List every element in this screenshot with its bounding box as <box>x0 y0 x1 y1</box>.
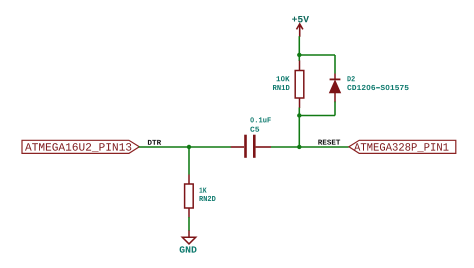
wire RESET net: capacitor to label <box>271 146 349 148</box>
resistor RN1D <box>295 61 304 109</box>
diode D2 <box>329 74 340 103</box>
ground <box>182 231 195 244</box>
wire top rail node B to diode column <box>299 54 335 56</box>
wire DTR net: label to capacitor <box>139 146 231 148</box>
capacitor C5 <box>231 135 271 158</box>
node A junction <box>187 145 191 149</box>
value 1K <box>199 188 206 193</box>
wire node B down to resistor RN1D pin <box>298 55 300 61</box>
node B junction <box>297 53 301 57</box>
GND value label <box>180 246 197 252</box>
name RN1D <box>273 85 290 90</box>
net name DTR <box>148 140 161 145</box>
node RESET junction <box>297 145 301 149</box>
wire diode down to bottom rail <box>334 102 336 116</box>
global label ATMEGA16U2_PIN13 <box>22 140 139 153</box>
wire node C down to node RESET <box>298 116 300 148</box>
+5V value label <box>292 16 309 22</box>
node C junction <box>297 113 301 117</box>
wire RN1D pin down to node C <box>298 108 300 116</box>
value 0.1uF <box>250 117 270 122</box>
name RN2D <box>199 196 215 201</box>
wire bottom rail node C to diode column <box>299 115 335 117</box>
wire diode column down to diode pin <box>334 55 336 74</box>
wire from +5V to node B <box>298 36 300 55</box>
power symbol +5V <box>297 24 303 37</box>
global label ATMEGA328P_PIN1 <box>349 140 456 153</box>
net name RESET <box>318 140 340 145</box>
value 10K <box>277 76 290 81</box>
wire node A down to resistor RN2D <box>188 147 190 175</box>
name D2 <box>347 76 354 81</box>
resistor RN2D <box>185 175 194 218</box>
name C5 <box>250 127 259 132</box>
value CD1206-S01575 <box>347 85 408 90</box>
wire RN2D to ground <box>188 217 190 231</box>
